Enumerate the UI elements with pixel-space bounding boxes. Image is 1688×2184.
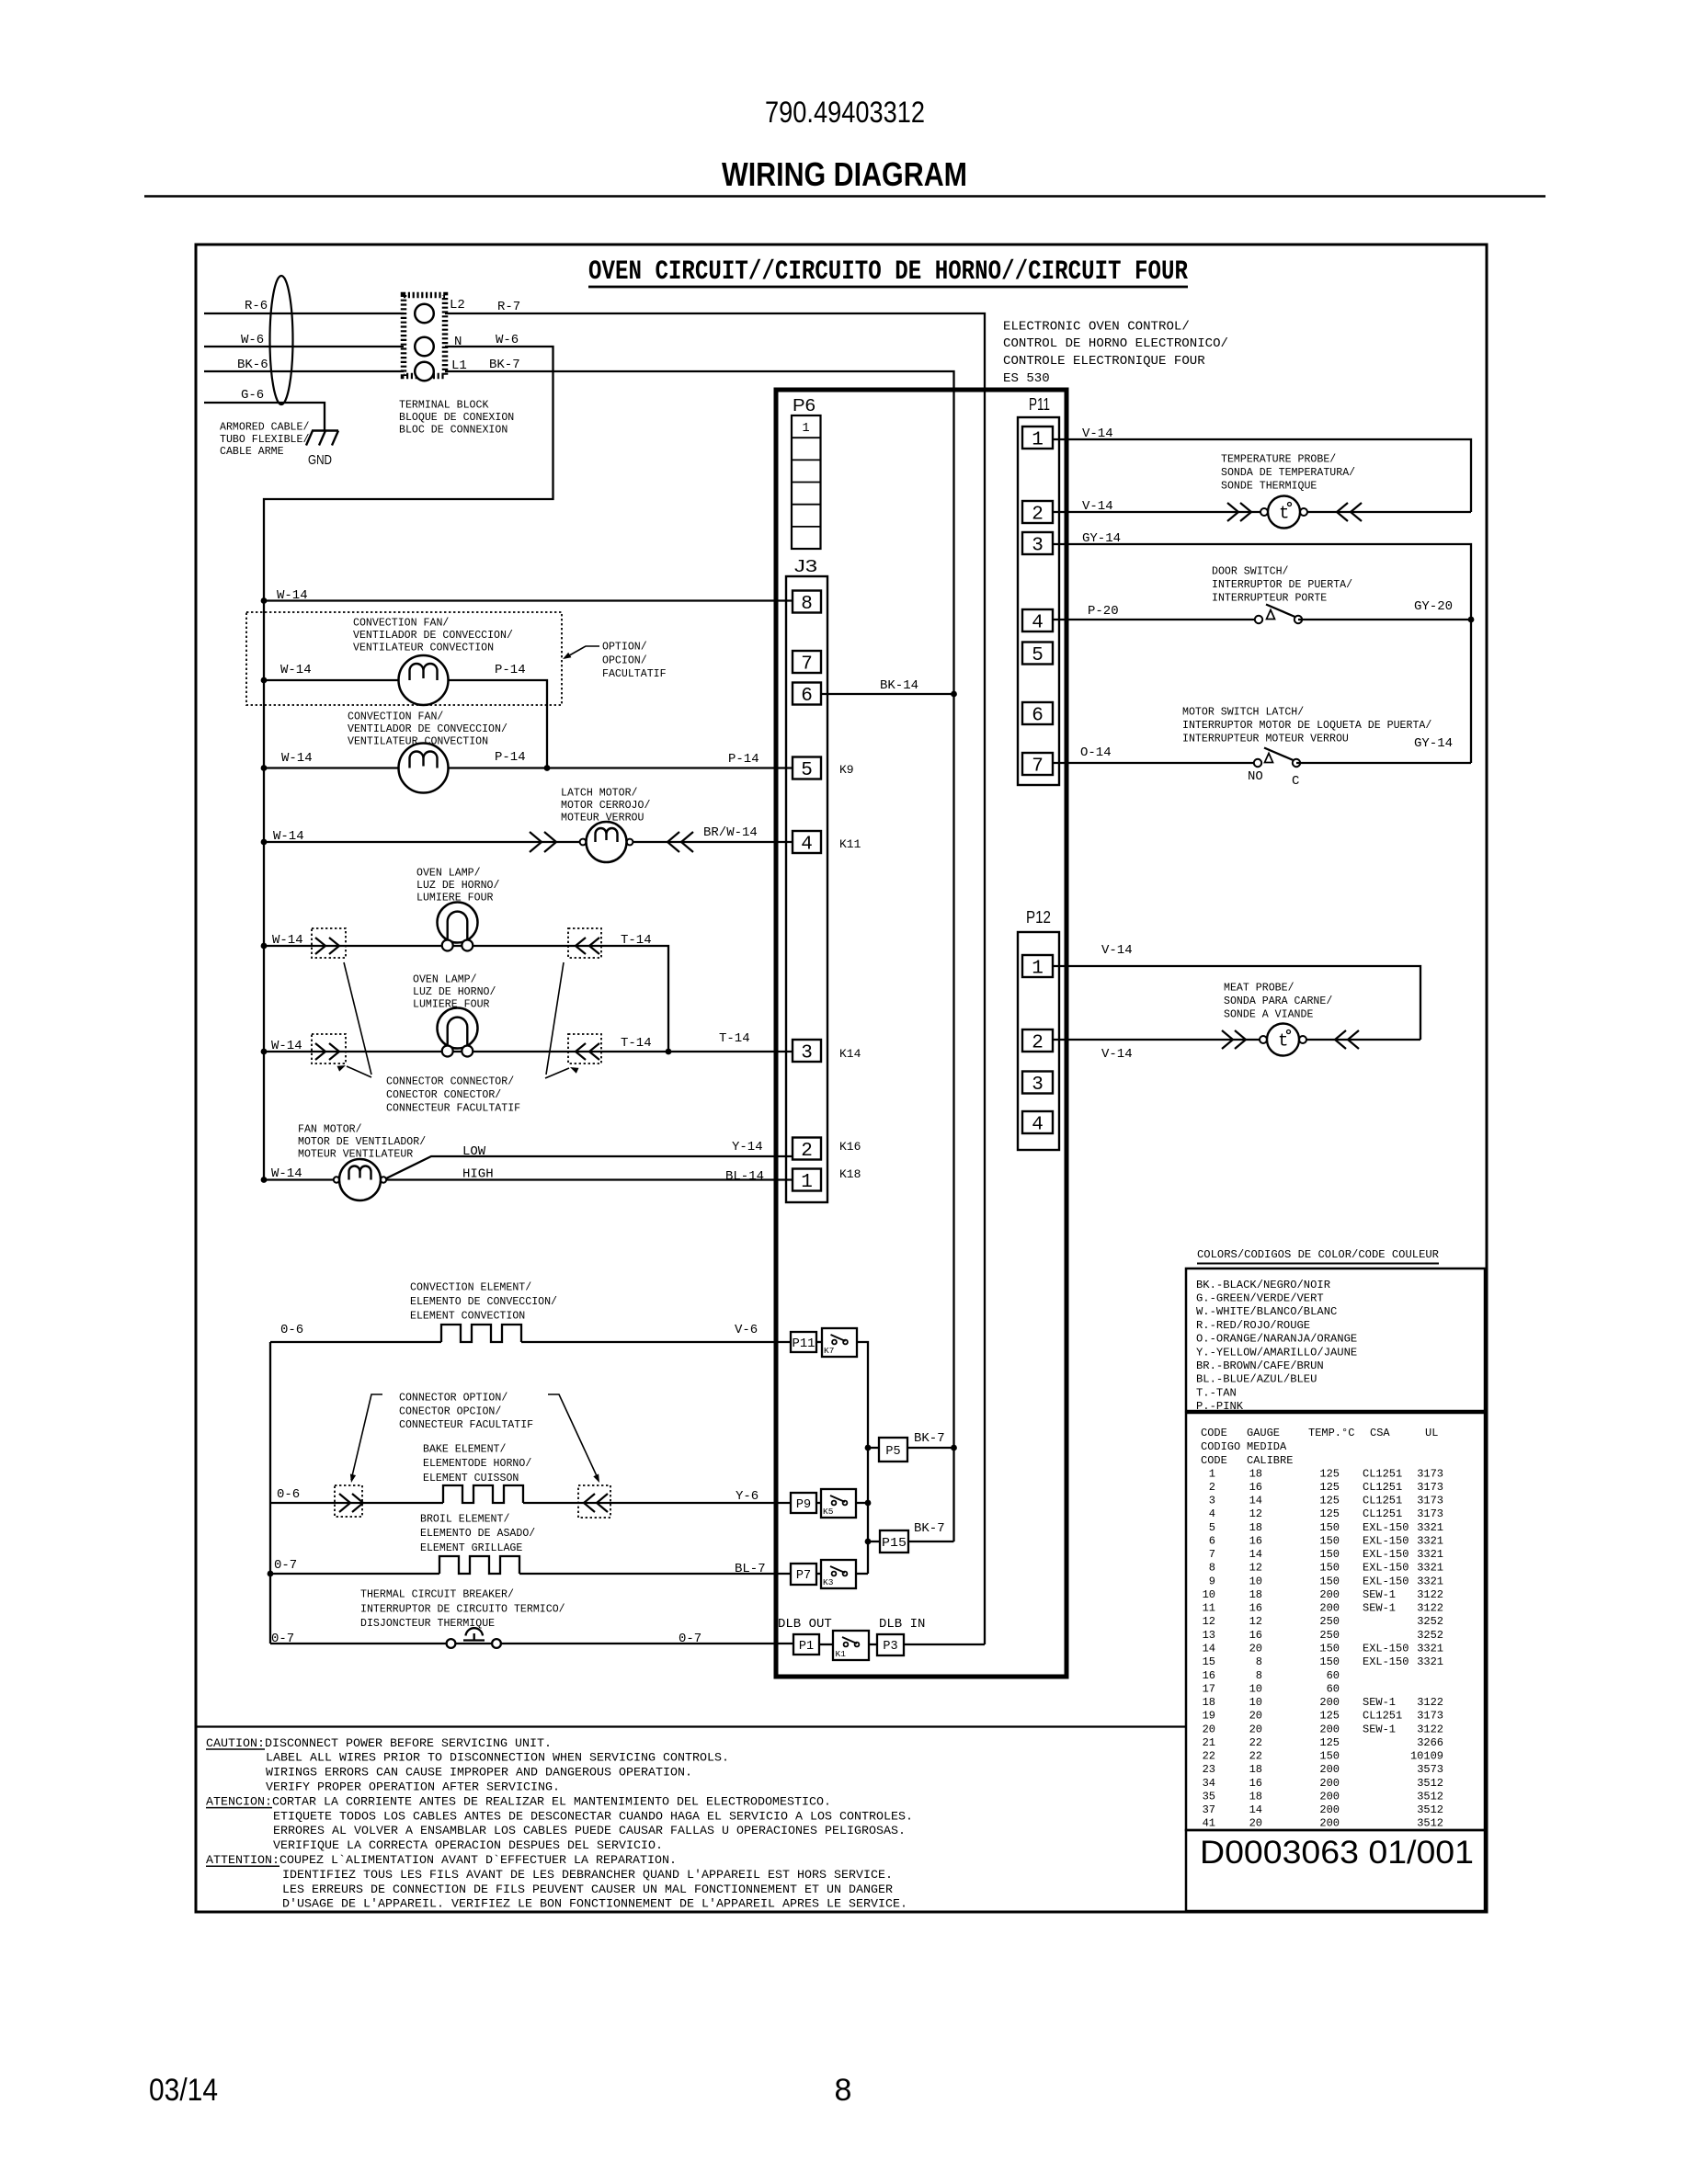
svg-text:14: 14 — [1249, 1803, 1262, 1816]
svg-text:OPCION/: OPCION/ — [602, 654, 647, 666]
svg-text:1: 1 — [1209, 1467, 1215, 1480]
svg-text:BROIL ELEMENT/: BROIL ELEMENT/ — [420, 1514, 509, 1526]
svg-text:2: 2 — [1032, 1033, 1044, 1054]
svg-text:20: 20 — [1203, 1723, 1215, 1735]
svg-text:LUZ DE HORNO/: LUZ DE HORNO/ — [416, 880, 499, 892]
svg-text:4: 4 — [1209, 1507, 1215, 1520]
svg-text:ES 530: ES 530 — [1003, 371, 1050, 386]
svg-text:W-6: W-6 — [496, 333, 519, 347]
svg-text:19: 19 — [1203, 1710, 1215, 1723]
J3 pin 3 box — [793, 1040, 821, 1062]
svg-text:150: 150 — [1319, 1575, 1340, 1587]
svg-text:17: 17 — [1203, 1682, 1215, 1695]
svg-text:CL1251: CL1251 — [1363, 1467, 1402, 1480]
svg-text:7: 7 — [1209, 1548, 1215, 1561]
svg-text:CONECTOR CONECTOR/: CONECTOR CONECTOR/ — [386, 1089, 501, 1101]
oven lamp LP2 — [438, 1008, 478, 1049]
svg-text:COLORS/CODIGOS DE COLOR/CODE C: COLORS/CODIGOS DE COLOR/CODE COULEUR — [1197, 1248, 1439, 1261]
svg-text:BLOQUE DE CONEXION: BLOQUE DE CONEXION — [399, 412, 514, 424]
svg-text:3173: 3173 — [1417, 1495, 1443, 1507]
svg-text:22: 22 — [1249, 1736, 1262, 1749]
svg-text:V-14: V-14 — [1082, 499, 1113, 514]
terminal P1 DLB OUT — [793, 1634, 819, 1655]
terminal P11 (relay input) — [791, 1332, 816, 1352]
svg-text:P12: P12 — [1026, 908, 1051, 927]
connector chevrons meat probe — [1222, 1030, 1233, 1049]
color code table box — [1186, 1268, 1485, 1411]
wire BK-14 from J3 pin 6 — [821, 693, 954, 695]
svg-text:VENTILADOR DE CONVECCION/: VENTILADOR DE CONVECCION/ — [348, 723, 508, 735]
svg-text:21: 21 — [1203, 1736, 1215, 1749]
svg-text:8: 8 — [1256, 1669, 1262, 1682]
svg-text:CALIBRE: CALIBRE — [1247, 1454, 1293, 1467]
svg-text:TUBO FLEXIBLE/: TUBO FLEXIBLE/ — [220, 434, 309, 446]
svg-text:11: 11 — [1203, 1602, 1215, 1615]
svg-text:18: 18 — [1249, 1467, 1262, 1480]
svg-text:ERRORES AL VOLVER A ENSAMBLAR: ERRORES AL VOLVER A ENSAMBLAR LOS CABLES… — [273, 1824, 906, 1837]
svg-text:3: 3 — [801, 1043, 813, 1064]
svg-text:16: 16 — [1249, 1481, 1262, 1494]
caution section separator — [196, 1725, 1187, 1727]
wire W-14/T-14 oven lamp 2 line to J3 pin 3 — [264, 1051, 793, 1052]
J3 pin 5 box — [793, 757, 821, 779]
svg-text:60: 60 — [1327, 1669, 1340, 1682]
svg-text:P9: P9 — [796, 1498, 811, 1512]
svg-text:T-14: T-14 — [621, 933, 652, 948]
wire LOW branch to J3 pin 2 — [383, 1156, 793, 1180]
wire O-6/V-6 convection element line — [270, 1341, 441, 1343]
svg-text:CAUTION:DISCONNECT POWER BEFOR: CAUTION:DISCONNECT POWER BEFORE SERVICIN… — [206, 1736, 552, 1750]
svg-text:T-14: T-14 — [621, 1036, 652, 1051]
J3 pin 6 box — [793, 683, 821, 705]
svg-text:V-14: V-14 — [1101, 1047, 1133, 1062]
svg-text:K9: K9 — [839, 763, 854, 777]
wire V-14 from P11 pin1 (temp probe loop) — [1053, 439, 1471, 512]
relay contact K5 — [821, 1489, 856, 1518]
wire W-14 to J3 pin 8 — [264, 599, 793, 601]
svg-text:3173: 3173 — [1417, 1710, 1443, 1723]
annotation lines to bake connectors — [351, 1394, 382, 1480]
svg-text:SEW-1: SEW-1 — [1363, 1696, 1396, 1709]
svg-text:R-6: R-6 — [245, 299, 268, 313]
svg-text:250: 250 — [1319, 1629, 1340, 1642]
P11 pin 7 box — [1022, 753, 1053, 775]
svg-text:P.-PINK: P.-PINK — [1196, 1400, 1244, 1413]
svg-text:2: 2 — [1209, 1481, 1215, 1494]
svg-text:K11: K11 — [839, 837, 861, 851]
svg-text:CONTROL DE HORNO ELECTRONICO/: CONTROL DE HORNO ELECTRONICO/ — [1003, 336, 1228, 351]
svg-text:22: 22 — [1203, 1750, 1215, 1763]
svg-text:P-20: P-20 — [1088, 604, 1119, 619]
svg-text:BK-7: BK-7 — [489, 358, 520, 372]
svg-text:R-7: R-7 — [497, 300, 520, 314]
svg-text:ARMORED CABLE/: ARMORED CABLE/ — [220, 422, 309, 434]
svg-text:INTERRUPTEUR PORTE: INTERRUPTEUR PORTE — [1212, 592, 1327, 604]
svg-text:200: 200 — [1319, 1602, 1340, 1615]
svg-text:CONTROLE ELECTRONIQUE FOUR: CONTROLE ELECTRONIQUE FOUR — [1003, 354, 1205, 369]
temperature probe RT1 — [1260, 508, 1268, 516]
J3 pin 2 box — [793, 1138, 821, 1160]
svg-text:5: 5 — [1209, 1521, 1215, 1534]
svg-text:P15: P15 — [882, 1537, 907, 1551]
svg-text:P11: P11 — [1029, 395, 1050, 414]
convection element R1 — [441, 1325, 521, 1342]
svg-text:12: 12 — [1203, 1615, 1215, 1628]
svg-text:ATTENTION:COUPEZ L`ALIMENTATIO: ATTENTION:COUPEZ L`ALIMENTATION AVANT D`… — [206, 1853, 677, 1867]
P12 pin 2 box — [1022, 1029, 1053, 1052]
svg-text:0-6: 0-6 — [280, 1323, 303, 1337]
P11 pin 5 box — [1022, 643, 1053, 665]
P11 pin 3 box — [1022, 532, 1053, 554]
svg-text:FACULTATIF: FACULTATIF — [602, 668, 667, 680]
svg-text:200: 200 — [1319, 1803, 1340, 1816]
svg-text:200: 200 — [1319, 1696, 1340, 1709]
svg-text:CODE: CODE — [1201, 1454, 1227, 1467]
relay contact K3 — [821, 1560, 856, 1588]
relay contact K7 — [822, 1328, 857, 1357]
svg-text:18: 18 — [1249, 1790, 1262, 1803]
svg-text:4: 4 — [1032, 1115, 1044, 1136]
connector dotted box lamp1 left — [312, 928, 346, 958]
svg-text:K16: K16 — [839, 1140, 861, 1154]
O-6 bus vertical — [269, 1342, 271, 1644]
motor switch latch S2 — [1254, 759, 1261, 767]
wire GY-14 from motor switch latch — [1296, 762, 1471, 764]
wire W-14 HIGH fan motor line to J3 pin 1 — [264, 1178, 793, 1180]
svg-text:6: 6 — [1209, 1535, 1215, 1548]
svg-text:INTERRUPTOR DE CIRCUITO TERMIC: INTERRUPTOR DE CIRCUITO TERMICO/ — [360, 1603, 565, 1615]
svg-text:5: 5 — [1032, 645, 1044, 666]
svg-text:3: 3 — [1209, 1495, 1215, 1507]
svg-text:18: 18 — [1249, 1763, 1262, 1776]
svg-text:BK-6: BK-6 — [237, 358, 268, 372]
wire BK-7 from P5 — [907, 1447, 954, 1449]
svg-text:35: 35 — [1203, 1790, 1215, 1803]
svg-text:150: 150 — [1319, 1521, 1340, 1534]
svg-text:6: 6 — [801, 686, 813, 707]
svg-text:EXL-150: EXL-150 — [1363, 1575, 1409, 1587]
svg-text:3573: 3573 — [1417, 1763, 1443, 1776]
header rule — [144, 195, 1545, 197]
svg-text:SEW-1: SEW-1 — [1363, 1602, 1396, 1615]
svg-text:SONDE A VIANDE: SONDE A VIANDE — [1224, 1008, 1313, 1020]
svg-text:ELEMENT CONVECTION: ELEMENT CONVECTION — [410, 1310, 525, 1322]
svg-text:12: 12 — [1249, 1507, 1262, 1520]
svg-text:SONDE THERMIQUE: SONDE THERMIQUE — [1221, 480, 1317, 492]
svg-text:W-14: W-14 — [272, 933, 303, 948]
svg-text:P3: P3 — [883, 1640, 897, 1654]
svg-text:16: 16 — [1249, 1535, 1262, 1548]
connector chevrons temp probe — [1227, 503, 1238, 521]
svg-text:P5: P5 — [885, 1445, 900, 1459]
svg-text:16: 16 — [1203, 1669, 1215, 1682]
P12 pin 3 box — [1022, 1072, 1053, 1094]
svg-text:8: 8 — [801, 594, 813, 615]
svg-text:1: 1 — [801, 1172, 813, 1193]
svg-text:4: 4 — [801, 835, 813, 856]
svg-text:3173: 3173 — [1417, 1481, 1443, 1494]
svg-text:O.-ORANGE/NARANJA/ORANGE: O.-ORANGE/NARANJA/ORANGE — [1196, 1333, 1357, 1346]
svg-text:P1: P1 — [799, 1640, 814, 1654]
svg-text:C: C — [1292, 774, 1299, 789]
svg-text:20: 20 — [1249, 1643, 1262, 1655]
diagram outer border — [196, 245, 1487, 1912]
convection fan motor M2 — [399, 744, 449, 793]
svg-text:LOW: LOW — [462, 1144, 486, 1159]
svg-text:VENTILADOR DE CONVECCION/: VENTILADOR DE CONVECCION/ — [353, 630, 513, 642]
svg-text:7: 7 — [801, 654, 813, 676]
svg-text:MOTOR CERROJO/: MOTOR CERROJO/ — [561, 800, 650, 812]
J3 pin 8 box — [793, 591, 821, 613]
relay contact K1 double line break — [833, 1631, 869, 1660]
terminal L1 circle — [415, 362, 434, 381]
wire BK-7 from P15 — [908, 1541, 954, 1542]
svg-text:9: 9 — [1209, 1575, 1215, 1587]
svg-text:125: 125 — [1319, 1481, 1340, 1494]
svg-text:BL.-BLUE/AZUL/BLEU: BL.-BLUE/AZUL/BLEU — [1196, 1373, 1317, 1386]
svg-text:3321: 3321 — [1417, 1548, 1443, 1561]
svg-text:3512: 3512 — [1417, 1817, 1443, 1830]
J3 pin 4 box — [793, 831, 821, 853]
svg-text:GY-14: GY-14 — [1082, 531, 1121, 546]
svg-text:CSA: CSA — [1370, 1427, 1390, 1439]
svg-text:INTERRUPTEUR MOTEUR VERROU: INTERRUPTEUR MOTEUR VERROU — [1182, 733, 1349, 745]
svg-text:3321: 3321 — [1417, 1535, 1443, 1548]
svg-text:10: 10 — [1203, 1588, 1215, 1601]
svg-text:P-14: P-14 — [728, 752, 759, 767]
svg-text:T.-TAN: T.-TAN — [1196, 1386, 1237, 1399]
svg-text:V-6: V-6 — [735, 1323, 758, 1337]
terminal P7 (broil relay input) — [791, 1564, 816, 1585]
wire W-6 from terminal N down-left to W-14 bus — [264, 347, 553, 1179]
svg-text:60: 60 — [1327, 1682, 1340, 1695]
svg-text:150: 150 — [1319, 1750, 1340, 1763]
svg-text:SEW-1: SEW-1 — [1363, 1723, 1396, 1735]
meat probe RT2 — [1260, 1036, 1267, 1043]
wire W-14 to optional convection fan — [264, 680, 547, 768]
svg-text:L2: L2 — [450, 298, 465, 313]
terminal P9 (bake relay input) — [791, 1493, 816, 1513]
svg-text:OVEN LAMP/: OVEN LAMP/ — [413, 974, 477, 986]
svg-text:MOTOR DE VENTILADOR/: MOTOR DE VENTILADOR/ — [298, 1136, 426, 1148]
svg-text:10109: 10109 — [1410, 1750, 1443, 1763]
svg-text:3: 3 — [1032, 1075, 1044, 1096]
wire O-7/BL-7 broil element line to P7 — [270, 1573, 439, 1575]
svg-text:790.49403312: 790.49403312 — [765, 96, 925, 129]
svg-text:CONNECTEUR FACULTATIF: CONNECTEUR FACULTATIF — [399, 1419, 533, 1431]
svg-text:OPTION/: OPTION/ — [602, 642, 647, 654]
connector dotted box lamp1 right — [568, 928, 601, 958]
svg-text:THERMAL CIRCUIT BREAKER/: THERMAL CIRCUIT BREAKER/ — [360, 1589, 514, 1601]
svg-text:14: 14 — [1249, 1548, 1262, 1561]
svg-text:DLB IN: DLB IN — [879, 1617, 925, 1632]
svg-text:20: 20 — [1249, 1710, 1262, 1723]
svg-text:CONVECTION ELEMENT/: CONVECTION ELEMENT/ — [410, 1282, 531, 1294]
svg-text:t: t — [1278, 1031, 1288, 1052]
svg-text:K14: K14 — [839, 1047, 861, 1061]
svg-text:BK-7: BK-7 — [914, 1431, 945, 1446]
underline ATTENTION — [206, 1865, 279, 1867]
svg-text:3122: 3122 — [1417, 1602, 1443, 1615]
svg-text:3122: 3122 — [1417, 1723, 1443, 1735]
svg-text:INTERRUPTOR DE PUERTA/: INTERRUPTOR DE PUERTA/ — [1212, 579, 1352, 591]
svg-text:ELEMENT CUISSON: ELEMENT CUISSON — [423, 1473, 519, 1484]
svg-text:BK-7: BK-7 — [914, 1521, 945, 1536]
svg-text:MOTOR SWITCH LATCH/: MOTOR SWITCH LATCH/ — [1182, 707, 1304, 719]
wire W-14/T-14 oven lamp 1 line — [264, 946, 668, 1052]
svg-text:K5: K5 — [823, 1507, 834, 1517]
svg-text:T-14: T-14 — [719, 1031, 750, 1046]
svg-text:CABLE ARME: CABLE ARME — [220, 446, 284, 458]
svg-text:EXL-150: EXL-150 — [1363, 1643, 1409, 1655]
annotation lines to lamp connectors — [344, 962, 371, 1075]
svg-text:3321: 3321 — [1417, 1521, 1443, 1534]
svg-text:125: 125 — [1319, 1495, 1340, 1507]
svg-text:CODIGO: CODIGO — [1201, 1440, 1240, 1453]
svg-text:200: 200 — [1319, 1790, 1340, 1803]
thermal circuit breaker CB1 — [447, 1639, 456, 1648]
svg-text:0-7: 0-7 — [274, 1558, 297, 1573]
svg-text:W.-WHITE/BLANCO/BLANC: W.-WHITE/BLANCO/BLANC — [1196, 1305, 1337, 1318]
svg-text:ETIQUETE TODOS LOS CABLES ANTE: ETIQUETE TODOS LOS CABLES ANTES DE DESCO… — [273, 1809, 913, 1823]
svg-text:t: t — [1279, 504, 1289, 524]
svg-text:R.-RED/ROJO/ROUGE: R.-RED/ROJO/ROUGE — [1196, 1319, 1310, 1332]
svg-text:15: 15 — [1203, 1655, 1215, 1668]
svg-text:3173: 3173 — [1417, 1467, 1443, 1480]
svg-text:20: 20 — [1249, 1723, 1262, 1735]
svg-text:SONDA PARA CARNE/: SONDA PARA CARNE/ — [1224, 995, 1332, 1007]
svg-text:GND: GND — [308, 452, 332, 468]
wire GY-20 from door switch to GY node — [1298, 619, 1471, 620]
svg-text:5: 5 — [801, 760, 813, 781]
svg-text:10: 10 — [1249, 1575, 1262, 1587]
electronic oven control board ES530 box — [776, 390, 1066, 1677]
svg-text:3122: 3122 — [1417, 1696, 1443, 1709]
wire GY-14 from P11 pin3 — [1053, 544, 1471, 763]
svg-text:W-14: W-14 — [271, 1039, 302, 1053]
svg-text:P11: P11 — [793, 1337, 815, 1351]
svg-text:K1: K1 — [836, 1649, 847, 1659]
svg-text:W-6: W-6 — [241, 333, 264, 347]
svg-text:200: 200 — [1319, 1763, 1340, 1776]
svg-text:14: 14 — [1249, 1495, 1262, 1507]
svg-text:K7: K7 — [824, 1346, 834, 1356]
svg-text:P-14: P-14 — [495, 663, 526, 677]
svg-text:3321: 3321 — [1417, 1575, 1443, 1587]
svg-text:150: 150 — [1319, 1562, 1340, 1575]
svg-text:1: 1 — [1032, 430, 1044, 451]
svg-text:BR.-BROWN/CAFE/BRUN: BR.-BROWN/CAFE/BRUN — [1196, 1359, 1324, 1372]
latch motor M3 — [580, 839, 587, 846]
connector dotted box lamp2 right — [568, 1034, 601, 1064]
document number box — [1186, 1830, 1485, 1911]
P12 pin 4 box — [1022, 1111, 1053, 1133]
svg-text:200: 200 — [1319, 1777, 1340, 1790]
svg-text:CODE: CODE — [1201, 1427, 1227, 1439]
svg-text:0-7: 0-7 — [271, 1632, 294, 1646]
svg-text:GAUGE: GAUGE — [1247, 1427, 1280, 1439]
svg-text:8: 8 — [1256, 1655, 1262, 1668]
svg-text:3122: 3122 — [1417, 1588, 1443, 1601]
svg-text:TEMP.°C: TEMP.°C — [1308, 1427, 1354, 1439]
svg-text:18: 18 — [1203, 1696, 1215, 1709]
svg-text:0-7: 0-7 — [679, 1632, 701, 1646]
svg-text:CL1251: CL1251 — [1363, 1495, 1402, 1507]
svg-text:BAKE ELEMENT/: BAKE ELEMENT/ — [423, 1444, 506, 1456]
wire BK-6 from supply to terminal block — [204, 370, 404, 372]
svg-text:GY-20: GY-20 — [1414, 599, 1453, 614]
svg-text:EXL-150: EXL-150 — [1363, 1548, 1409, 1561]
svg-text:FAN MOTOR/: FAN MOTOR/ — [298, 1124, 362, 1136]
svg-text:ELECTRONIC OVEN CONTROL/: ELECTRONIC OVEN CONTROL/ — [1003, 319, 1190, 334]
svg-text:ELEMENT GRILLAGE: ELEMENT GRILLAGE — [420, 1542, 522, 1554]
svg-text:VERIFY PROPER OPERATION AFTER: VERIFY PROPER OPERATION AFTER SERVICING. — [266, 1780, 560, 1794]
broil element R3 — [439, 1556, 519, 1574]
svg-text:3512: 3512 — [1417, 1777, 1443, 1790]
svg-text:CL1251: CL1251 — [1363, 1507, 1402, 1520]
svg-text:16: 16 — [1249, 1629, 1262, 1642]
terminal L2 circle — [415, 304, 434, 324]
svg-text:ELEMENTO DE CONVECCION/: ELEMENTO DE CONVECCION/ — [410, 1296, 557, 1308]
J3 pin 7 box — [793, 651, 821, 673]
P11 pin 1 box — [1022, 427, 1053, 449]
svg-text:WIRINGS ERRORS CAN CAUSE IMPRO: WIRINGS ERRORS CAN CAUSE IMPROPER AND DA… — [266, 1766, 692, 1780]
wire V-14 from P12 pin1 (meat probe loop) — [1053, 966, 1420, 1040]
underline ATENCION — [206, 1807, 272, 1809]
svg-text:BK-14: BK-14 — [880, 678, 918, 693]
svg-text:3252: 3252 — [1417, 1629, 1443, 1642]
wire O-7 thermal breaker line to P1 DLB OUT — [270, 1643, 793, 1644]
svg-text:IDENTIFIEZ TOUS LES FILS AVANT: IDENTIFIEZ TOUS LES FILS AVANT DE LES DE… — [282, 1868, 893, 1882]
svg-text:ELEMENTO DE ASADO/: ELEMENTO DE ASADO/ — [420, 1528, 535, 1540]
terminal P15 — [868, 1541, 880, 1542]
svg-text:P-14: P-14 — [495, 750, 526, 765]
svg-text:16: 16 — [1249, 1602, 1262, 1615]
svg-text:W-14: W-14 — [271, 1166, 302, 1181]
svg-text:Y-6: Y-6 — [736, 1489, 758, 1504]
svg-text:8: 8 — [835, 2073, 852, 2108]
svg-text:22: 22 — [1249, 1750, 1262, 1763]
wire G-6 from supply to ground — [204, 403, 325, 431]
svg-text:10: 10 — [1249, 1682, 1262, 1695]
svg-text:V-14: V-14 — [1101, 943, 1133, 958]
svg-text:MEDIDA: MEDIDA — [1247, 1440, 1287, 1453]
svg-text:OVEN CIRCUIT//CIRCUITO DE HORN: OVEN CIRCUIT//CIRCUITO DE HORNO//CIRCUIT… — [588, 256, 1188, 288]
wire K7 output to BK-7 node — [857, 1342, 868, 1574]
svg-text:SONDA DE TEMPERATURA/: SONDA DE TEMPERATURA/ — [1221, 467, 1355, 479]
svg-text:37: 37 — [1203, 1803, 1215, 1816]
terminal block TB1 hatched body — [404, 295, 445, 376]
svg-text:NO: NO — [1248, 769, 1263, 784]
svg-text:12: 12 — [1249, 1562, 1262, 1575]
svg-text:18: 18 — [1249, 1521, 1262, 1534]
svg-text:W-14: W-14 — [277, 588, 308, 603]
svg-text:41: 41 — [1203, 1817, 1215, 1830]
svg-text:16: 16 — [1249, 1777, 1262, 1790]
svg-text:BR/W-14: BR/W-14 — [703, 825, 758, 840]
svg-text:LUZ DE HORNO/: LUZ DE HORNO/ — [413, 986, 496, 998]
svg-text:LATCH MOTOR/: LATCH MOTOR/ — [561, 788, 638, 800]
connector dotted box bake right — [578, 1485, 610, 1518]
svg-text:125: 125 — [1319, 1467, 1340, 1480]
svg-text:HIGH: HIGH — [462, 1167, 494, 1182]
svg-text:03/14: 03/14 — [149, 2073, 218, 2108]
svg-text:2: 2 — [801, 1141, 813, 1162]
svg-text:125: 125 — [1319, 1507, 1340, 1520]
svg-text:3: 3 — [1032, 536, 1044, 557]
svg-text:23: 23 — [1203, 1763, 1215, 1776]
svg-text:D'USAGE DE L'APPAREIL. VERIFIE: D'USAGE DE L'APPAREIL. VERIFIEZ LE BON F… — [282, 1897, 907, 1911]
